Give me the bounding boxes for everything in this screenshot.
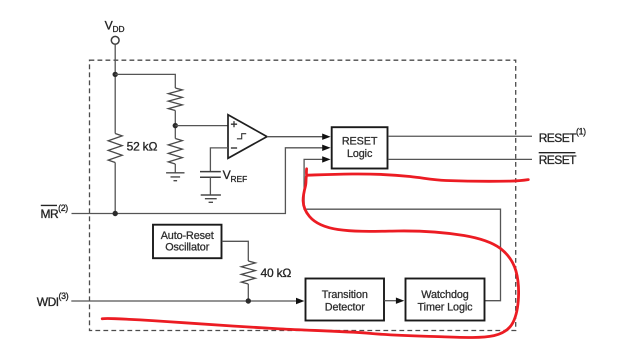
label RESET-bar overline [539, 152, 576, 154]
wire oscillator to 40k resistor [222, 241, 249, 301]
wire MR input rail [72, 148, 324, 214]
reference VREF [200, 172, 221, 178]
wire VDD pin down to MR rail [114, 44, 116, 213]
label MR-bar overline [41, 204, 57, 206]
svg-text:52 kΩ: 52 kΩ [127, 140, 158, 154]
arrowhead transition to watchdog [396, 298, 404, 304]
comparator minus sign [231, 147, 237, 149]
svg-text:Watchdog: Watchdog [421, 289, 469, 301]
arrowhead watchdog to RESET logic [322, 156, 330, 162]
wire divider middle [174, 111, 176, 139]
svg-text:RESET: RESET [342, 136, 378, 148]
VDD pin circle [111, 36, 119, 44]
wire transition detector to watchdog [384, 300, 396, 302]
resistor divider lower [168, 139, 182, 165]
arrowhead comparator to RESET logic [322, 134, 330, 140]
svg-text:Transition: Transition [322, 289, 368, 301]
wire tap to comparator plus input [175, 125, 228, 127]
comparator plus sign [231, 121, 237, 127]
node MR junction with 52k [113, 211, 118, 216]
resistor 40 kOhm [241, 261, 255, 284]
wire divider lower to ground [174, 164, 176, 173]
node junction VDD rail [113, 72, 118, 77]
comparator hysteresis symbol [237, 134, 246, 139]
red annotation loop stroke [102, 177, 518, 338]
RESET Logic box U-reset [332, 127, 388, 168]
wire comparator output to RESET logic [267, 136, 323, 138]
wire RESET output 1 [389, 135, 532, 137]
wire comparator minus input [210, 148, 228, 172]
resistor divider upper [168, 88, 182, 111]
svg-text:40 kΩ: 40 kΩ [261, 266, 292, 280]
svg-text:Detector: Detector [325, 302, 366, 314]
wire VREF to ground [209, 177, 211, 195]
wire RESET-bar output 2 [389, 158, 532, 160]
wire watchdog feedback to RESET logic [304, 159, 500, 300]
arrowhead MR to RESET logic [322, 145, 330, 151]
resistor 52 kOhm [108, 134, 122, 163]
Watchdog Timer Logic box [406, 279, 485, 321]
svg-text:Oscillator: Oscillator [165, 242, 210, 254]
IC boundary dashed box [90, 60, 516, 330]
node divider tap [173, 123, 178, 128]
svg-text:Auto-Reset: Auto-Reset [161, 230, 214, 242]
ground VREF [201, 195, 221, 202]
svg-text:Timer Logic: Timer Logic [418, 301, 474, 313]
svg-text:Logic: Logic [347, 148, 373, 160]
wire WDI input [71, 300, 296, 302]
node WDI junction with 40k [246, 298, 251, 303]
wire VDD rail to divider top [115, 74, 175, 88]
svg-text:RESET: RESET [539, 153, 577, 167]
Transition Detector box [306, 279, 385, 321]
Auto-Reset Oscillator box [153, 225, 222, 259]
ground divider [166, 173, 184, 181]
red annotation horizontal stroke [306, 169, 528, 181]
op-amp comparator [228, 115, 267, 159]
arrowhead WDI to transition detector [296, 298, 304, 304]
